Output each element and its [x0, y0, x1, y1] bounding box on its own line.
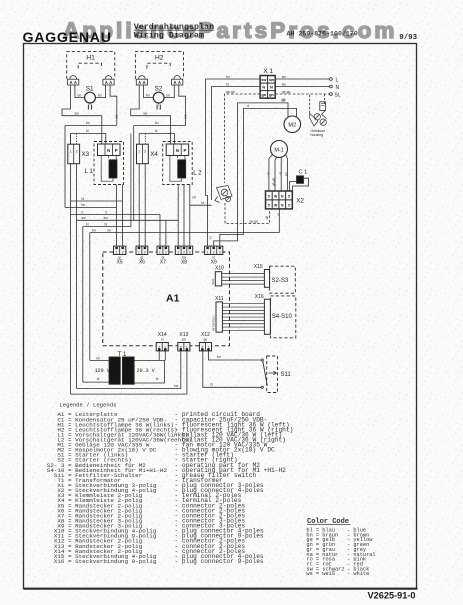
terminal block X4	[137, 144, 149, 164]
wire bn starter to socket	[95, 85, 105, 98]
svg-text:bl: bl	[277, 213, 281, 216]
svg-text:sw: sw	[115, 115, 119, 120]
svg-text:X16: X16	[255, 294, 264, 300]
svg-text:X6: X6	[139, 259, 145, 265]
ballast L 2 dashed box	[163, 142, 193, 185]
svg-text:Legende / Legends: Legende / Legends	[59, 402, 116, 409]
wire bn X1 drop to X9 pin1	[206, 196, 208, 247]
svg-text:ro: ro	[266, 172, 270, 175]
drops to terminal block	[70, 134, 72, 145]
lamp socket	[68, 79, 79, 85]
svg-text:sw: sw	[183, 115, 187, 120]
wire bn bus y207.4	[65, 206, 117, 208]
svg-text:S1: S1	[86, 86, 94, 93]
wire bl bus y226.5	[83, 226, 131, 228]
lamp tube dashed symbol	[147, 63, 170, 68]
operating unit S4-S10 dashed	[270, 296, 295, 338]
svg-text:1: 1	[177, 250, 179, 254]
wire rt M2 to X9	[220, 108, 297, 246]
wire bl X1 to left drop	[212, 87, 261, 201]
svg-text:bl: bl	[278, 172, 282, 175]
wire sw M2 to X9	[214, 103, 288, 246]
svg-text:X11: X11	[215, 296, 224, 302]
svg-text:3: 3	[189, 250, 191, 254]
svg-text:- white: - white	[347, 571, 369, 577]
svg-text:bn: bn	[78, 93, 82, 97]
T1 primary feeds	[90, 359, 109, 361]
protective earth to SL terminal	[275, 93, 329, 95]
svg-text:sw: sw	[261, 78, 266, 82]
mains terminal N	[275, 86, 329, 88]
X6 drops from X4	[138, 164, 140, 246]
ballast internal wires	[170, 156, 182, 182]
svg-text:ge-gn: ge-gn	[272, 178, 276, 186]
harness X11 to X16 (9 wires)	[222, 303, 264, 305]
printed circuit board A1 (dashed)	[103, 252, 230, 346]
svg-text:5: 5	[288, 203, 290, 207]
svg-text:ro: ro	[209, 237, 213, 240]
wire bn X12 to S11	[208, 351, 261, 360]
wire ge-gn PE to X2 (dashed)	[225, 203, 270, 224]
svg-text:987654321: 987654321	[212, 316, 216, 331]
ballast connector N P	[166, 144, 189, 156]
svg-text:2: 2	[213, 250, 215, 254]
wire sw lamp return	[62, 85, 102, 144]
fluorescent lamp H2 dashed enclosure	[135, 52, 183, 79]
svg-text:1: 1	[186, 346, 188, 350]
svg-text:bl: bl	[155, 129, 158, 133]
operating unit S2-S3 dashed	[270, 266, 296, 293]
svg-text:ro: ro	[161, 337, 164, 341]
svg-text:S2-S3: S2-S3	[272, 278, 289, 284]
svg-text:bl: bl	[97, 377, 100, 381]
motor M1	[271, 141, 288, 158]
svg-text:2: 2	[183, 250, 185, 254]
connector X7	[157, 246, 169, 254]
svg-text:M-1: M-1	[274, 147, 283, 153]
svg-text:rt: rt	[105, 210, 107, 214]
connector X6	[136, 246, 148, 254]
svg-text:X3: X3	[82, 151, 90, 158]
svg-text:L: L	[336, 77, 339, 83]
wire bl feed	[71, 134, 106, 145]
svg-text:S2: S2	[155, 86, 163, 93]
M1 lead wires to X2	[269, 155, 273, 192]
connector X12	[199, 343, 211, 351]
svg-text:bl: bl	[105, 222, 108, 226]
svg-text:2: 2	[76, 150, 78, 154]
wire bottom return y394.1	[71, 351, 187, 394]
X8 drops from L2	[177, 185, 179, 221]
wire sw bus y220.3 to X7 pin2 / X8 pin1	[77, 219, 179, 221]
connector X14	[156, 343, 168, 351]
svg-text:sw: sw	[285, 172, 289, 177]
svg-text:1: 1	[70, 150, 72, 154]
mains terminal L	[275, 78, 329, 80]
starter capacitor	[89, 103, 91, 105]
svg-text:3: 3	[219, 250, 221, 254]
svg-text:N: N	[270, 86, 273, 90]
svg-text:1: 1	[208, 346, 210, 350]
harness X10 to X15 (4 wires)	[222, 273, 265, 275]
chassis ground (Gehaeuse/housing) at SL	[310, 94, 327, 137]
svg-text:H1: H1	[86, 55, 95, 62]
drawing border frame	[24, 44, 417, 589]
svg-text:bn: bn	[86, 121, 90, 125]
ballast internal wires	[101, 156, 113, 182]
svg-text:bl: bl	[210, 383, 213, 387]
ballast choke winding	[178, 160, 186, 178]
svg-text:bn: bn	[146, 93, 150, 97]
svg-text:L 2: L 2	[193, 170, 202, 177]
svg-text:ge-gn: ge-gn	[250, 219, 259, 223]
connector X9	[205, 246, 223, 254]
lamp socket	[172, 79, 183, 85]
svg-text:sw: sw	[282, 75, 287, 79]
svg-text:rt: rt	[247, 104, 249, 108]
svg-text:housing: housing	[311, 133, 324, 137]
svg-text:rt: rt	[82, 210, 84, 214]
wire bn feed	[65, 125, 117, 127]
svg-text:bl: bl	[226, 82, 229, 86]
svg-text:bl: bl	[156, 377, 159, 381]
lamp H2 assembly (right)	[131, 52, 202, 185]
svg-text:P: P	[184, 148, 187, 153]
wire bn starter to socket	[164, 85, 174, 98]
wire sw right socket	[179, 85, 186, 126]
connector X5	[114, 246, 126, 254]
svg-text:V2625-91-0: V2625-91-0	[368, 591, 416, 601]
lamp H1 assembly (left)	[62, 52, 124, 185]
motor M2	[284, 116, 301, 133]
svg-text:L 1: L 1	[85, 168, 94, 175]
wire bn socket to starter	[75, 85, 85, 98]
svg-text:bl: bl	[86, 129, 89, 133]
svg-text:X4: X4	[150, 151, 158, 158]
ballast connector N P	[98, 144, 121, 156]
wire sw lamp return	[131, 85, 171, 144]
wire below X2	[278, 209, 280, 233]
svg-text:bn: bn	[97, 357, 101, 361]
svg-text:1: 1	[159, 250, 161, 254]
wire ge-gn X1 PE drop (dashed)	[225, 94, 261, 183]
svg-text:M2: M2	[288, 123, 296, 129]
lamp socket	[136, 79, 147, 85]
svg-text:sw: sw	[281, 99, 286, 103]
wire bn bus y232.6	[90, 232, 279, 234]
svg-text:W: W	[274, 195, 277, 199]
lamp tube dashed symbol	[78, 63, 101, 68]
svg-text:C 1: C 1	[299, 170, 308, 176]
svg-text:4321: 4321	[211, 278, 215, 285]
svg-text:5: 5	[268, 203, 270, 207]
lamp socket	[103, 79, 114, 85]
wire bl bus y201 (X3 pin1 to X5)	[71, 200, 123, 202]
wire bl X12 to S11	[203, 351, 261, 387]
svg-text:gn: gn	[261, 93, 266, 97]
svg-text:X2: X2	[296, 198, 304, 205]
svg-text:1: 1	[207, 250, 209, 254]
wire bn X1 to left drop	[206, 79, 261, 196]
svg-text:bn: bn	[217, 355, 221, 359]
svg-text:sw: sw	[82, 216, 87, 220]
svg-text:2: 2	[202, 346, 204, 350]
X3 pin2 long drop x76.5	[76, 164, 78, 389]
starter capacitor	[158, 103, 160, 105]
ballast choke winding	[109, 160, 117, 178]
wire sw right socket	[110, 85, 117, 126]
svg-text:X15: X15	[254, 264, 263, 270]
T1 secondary loop	[134, 360, 164, 383]
T1 secondary winding	[122, 357, 134, 384]
wire bl X1 drop to X8 pin3	[190, 204, 212, 206]
svg-text:bn: bn	[82, 203, 86, 207]
svg-text:bl: bl	[86, 222, 89, 226]
svg-text:9/93: 9/93	[399, 34, 417, 42]
svg-text:bn: bn	[193, 196, 197, 200]
svg-text:ge: ge	[265, 216, 269, 220]
svg-text:X7: X7	[160, 259, 166, 265]
svg-text:W: W	[274, 203, 277, 207]
svg-text:ws = weiß: ws = weiß	[306, 571, 335, 577]
svg-text:S4-S10: S4-S10	[272, 314, 293, 320]
wire bn socket to starter	[144, 85, 154, 98]
svg-text:2: 2	[165, 250, 167, 254]
svg-text:1: 1	[116, 250, 118, 254]
svg-text:2: 2	[158, 346, 160, 350]
svg-text:X5: X5	[117, 259, 123, 265]
drops to terminal block	[138, 134, 140, 145]
connector X13	[178, 343, 190, 351]
svg-text:1: 1	[138, 150, 140, 154]
svg-text:2: 2	[144, 150, 146, 154]
svg-text:sw: sw	[182, 337, 187, 341]
connector X8	[175, 246, 192, 254]
svg-text:sw: sw	[104, 216, 109, 220]
chassis ground (PE) mid	[215, 186, 232, 203]
svg-text:ge-gn: ge-gn	[282, 90, 291, 94]
svg-text:gn: gn	[269, 93, 274, 97]
svg-text:N: N	[176, 148, 179, 153]
svg-text:20.3 V: 20.3 V	[137, 368, 155, 374]
svg-text:X16 = Steckverbindung 9-polig: X16 = Steckverbindung 9-polig	[47, 558, 157, 565]
svg-text:X9: X9	[211, 259, 217, 265]
wire bn feed	[134, 125, 186, 127]
svg-text:AppliancePartsPros.com: AppliancePartsPros.com	[63, 18, 398, 43]
svg-text:5: 5	[288, 195, 290, 199]
svg-text:120 V: 120 V	[95, 368, 110, 374]
svg-text:P: P	[115, 148, 118, 153]
svg-text:N: N	[336, 85, 340, 91]
ballast L 1 dashed box	[94, 142, 124, 185]
svg-text:SL: SL	[335, 93, 341, 99]
wire bl feed	[139, 134, 174, 145]
svg-text:ge: ge	[204, 337, 208, 341]
svg-text:bn: bn	[226, 75, 230, 79]
svg-text:sw: sw	[75, 112, 80, 116]
svg-text:X8: X8	[181, 259, 187, 265]
svg-text:bl: bl	[202, 201, 205, 205]
wire bl drop x82.8	[82, 227, 84, 383]
wire rt bus y214.5 to X7 pin1	[71, 214, 161, 216]
T1 primary winding	[109, 357, 120, 384]
svg-text:bn: bn	[92, 229, 96, 233]
svg-text:2: 2	[144, 250, 146, 254]
svg-text:bn: bn	[166, 93, 170, 97]
svg-text:2: 2	[180, 346, 182, 350]
svg-text:X10: X10	[215, 266, 224, 272]
wire sw bottom return y388.4	[77, 351, 181, 389]
L1 to X5 verticals (gr)	[116, 184, 118, 246]
wire bl/X3 pin1 long drop x70.5	[70, 164, 72, 394]
svg-text:2: 2	[122, 250, 124, 254]
svg-text:X 1: X 1	[263, 68, 273, 75]
svg-text:N: N	[262, 86, 265, 90]
svg-text:bn: bn	[155, 121, 159, 125]
svg-text:bl: bl	[82, 197, 85, 201]
svg-text:sw: sw	[174, 384, 179, 388]
svg-text:ge-gn: ge-gn	[226, 90, 235, 94]
wire bn left drop x65	[64, 126, 66, 208]
svg-text:1: 1	[164, 346, 166, 350]
terminal block X3	[68, 144, 80, 164]
svg-text:- plug connector 9-poles: - plug connector 9-poles	[175, 558, 264, 565]
switch S11	[261, 359, 263, 361]
svg-text:1: 1	[138, 250, 140, 254]
svg-text:bn: bn	[98, 93, 102, 97]
svg-text:S11: S11	[281, 372, 292, 378]
svg-text:A1: A1	[166, 293, 180, 305]
svg-text:bn: bn	[108, 229, 112, 233]
svg-text:N: N	[107, 148, 110, 153]
X14 drops to secondary	[158, 351, 160, 361]
wire bn drop x89.8	[89, 233, 91, 361]
svg-text:5: 5	[268, 195, 270, 199]
svg-text:H2: H2	[155, 55, 164, 62]
fluorescent lamp H1 dashed enclosure	[67, 52, 115, 79]
connector X2	[266, 191, 293, 209]
svg-text:sw: sw	[269, 78, 274, 82]
svg-text:ws: ws	[282, 82, 286, 86]
svg-text:sw: sw	[143, 112, 148, 116]
